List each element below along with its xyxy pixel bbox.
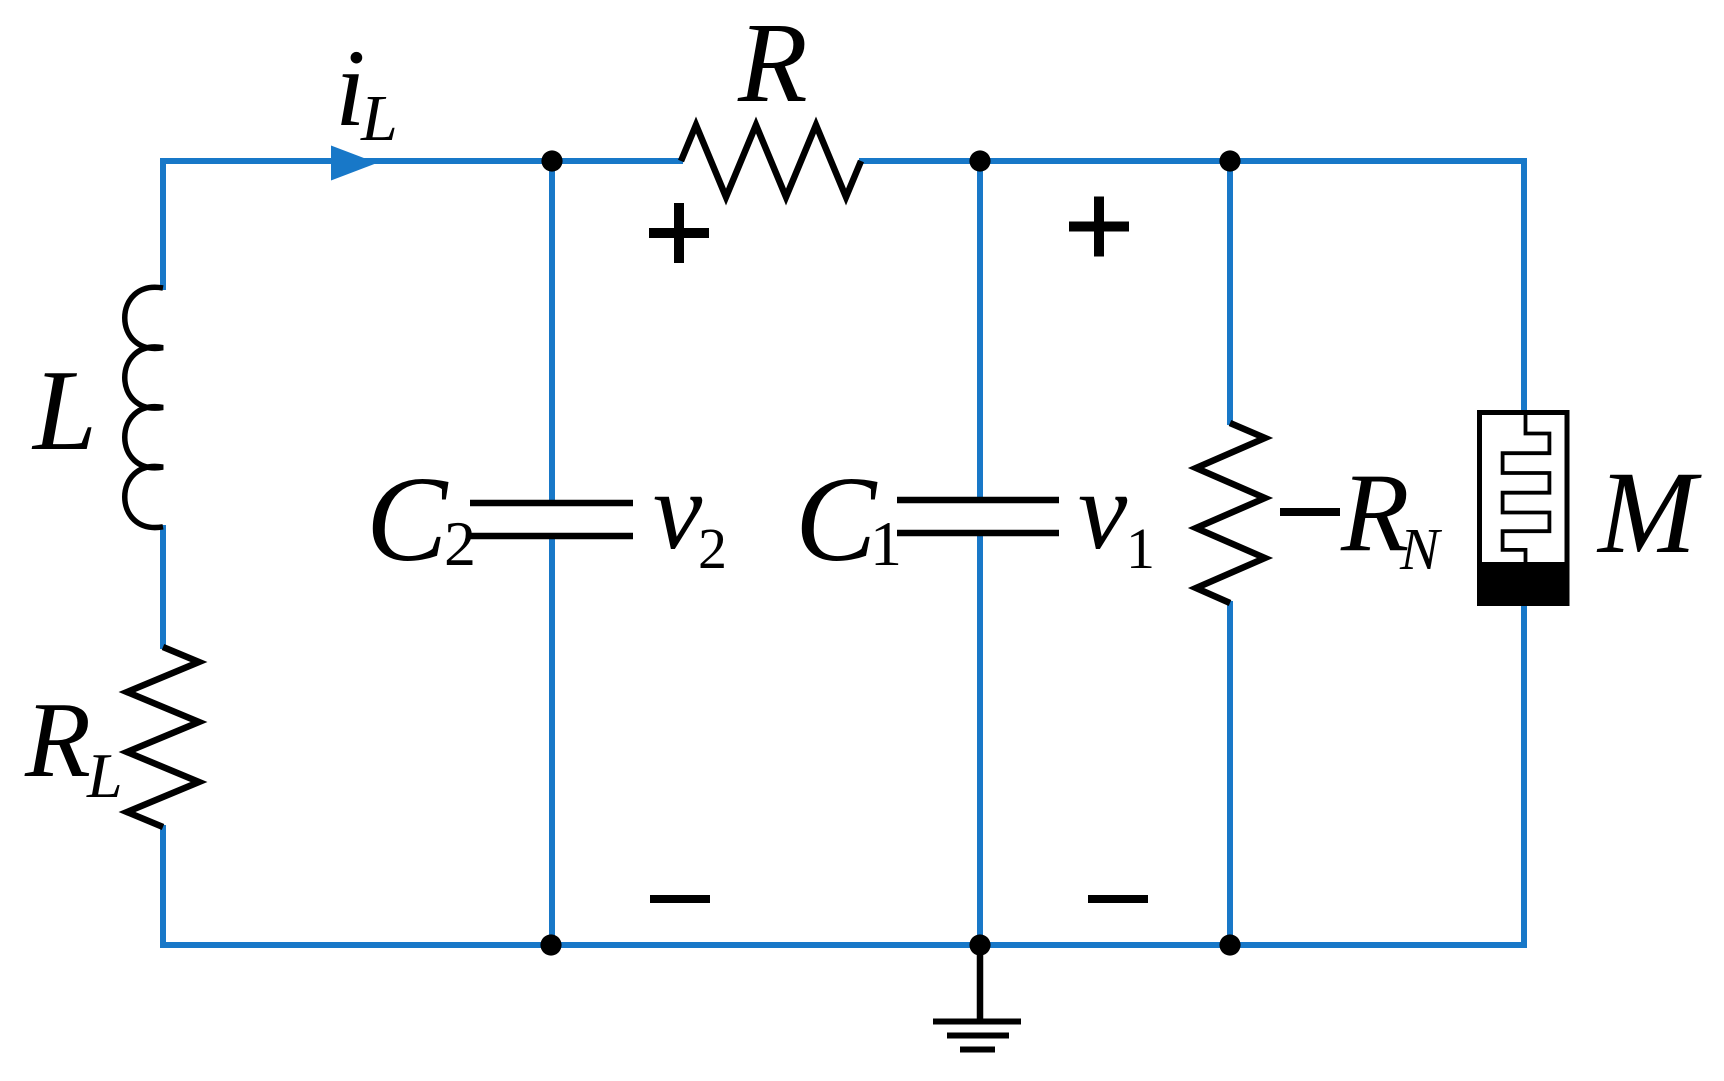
wire C1 branch lower <box>977 533 983 945</box>
node A top C2 <box>541 150 562 171</box>
resistor RL <box>127 647 199 827</box>
label -R_N <box>1280 452 1443 583</box>
label C_1 <box>795 452 902 587</box>
svg-text:1: 1 <box>870 508 902 579</box>
wire RN branch lower <box>1227 601 1233 945</box>
inductor L <box>125 287 163 527</box>
svg-text:R: R <box>737 0 808 126</box>
label C_2 <box>366 452 476 587</box>
wire bottom bus <box>163 942 1524 948</box>
label v_1 <box>1078 450 1155 581</box>
resistor -RN <box>1196 423 1265 603</box>
wire top bus left of R <box>163 158 683 164</box>
svg-text:L: L <box>86 740 123 811</box>
node C top RN <box>1219 150 1240 171</box>
plus sign v2 <box>649 203 709 263</box>
svg-text:2: 2 <box>698 516 727 581</box>
label v_2 <box>653 450 727 581</box>
node D bottom C2 <box>540 934 561 955</box>
capacitor C2 <box>470 503 633 536</box>
wire C1 branch upper <box>977 161 983 500</box>
plus sign v1 <box>1069 197 1129 257</box>
minus sign v1 <box>1088 895 1148 903</box>
wire C2 branch lower <box>549 536 555 945</box>
svg-text:R: R <box>1340 452 1409 576</box>
svg-text:M: M <box>1596 447 1702 578</box>
ground <box>933 945 1021 1050</box>
svg-text:2: 2 <box>444 508 476 579</box>
svg-text:N: N <box>1399 516 1443 582</box>
wire RN branch upper <box>1227 161 1233 425</box>
capacitor C1 <box>897 500 1059 533</box>
wire C2 branch upper <box>549 161 555 503</box>
node E bottom C1 <box>969 934 990 955</box>
wire left branch upper <box>160 158 166 290</box>
svg-text:C: C <box>795 452 878 587</box>
node B top C1 <box>969 150 990 171</box>
svg-text:L: L <box>360 82 398 155</box>
label R_L <box>24 681 123 811</box>
wire right branch lower <box>1521 602 1527 948</box>
svg-text:v: v <box>1078 450 1128 573</box>
wire right branch upper <box>1521 158 1527 414</box>
svg-text:R: R <box>24 681 91 800</box>
svg-text:1: 1 <box>1126 516 1155 581</box>
svg-text:C: C <box>366 452 449 587</box>
resistor R <box>681 125 861 197</box>
memristor M <box>1480 413 1568 604</box>
minus sign v2 <box>650 895 710 903</box>
node F bottom RN <box>1219 934 1240 955</box>
wire left branch middle <box>160 525 166 649</box>
svg-text:L: L <box>31 347 97 474</box>
wire left branch lower <box>160 825 166 948</box>
svg-text:v: v <box>653 450 703 573</box>
wire top bus right of R <box>859 158 1524 164</box>
current arrow iL <box>331 146 377 181</box>
label i_L <box>335 27 398 155</box>
